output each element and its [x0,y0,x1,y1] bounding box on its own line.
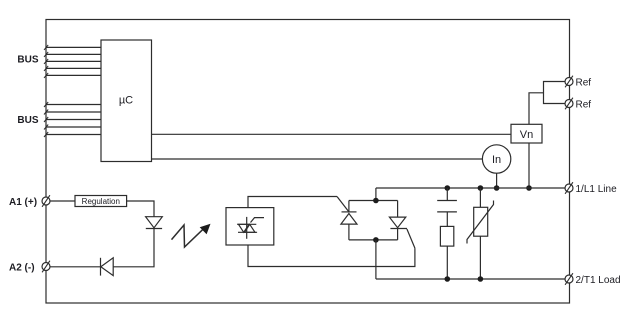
wire LED to diode [113,229,154,267]
terminal Ref 1 [565,76,591,89]
Ref bracket wires [544,82,566,104]
resistor R1 [440,226,453,246]
opto-triac U2 [226,208,274,245]
terminal A2 [9,261,50,274]
terminal A1 [9,195,50,208]
Regulation box [75,196,127,207]
wire line to cap [446,188,448,201]
optical arrow [172,224,211,247]
pair top rail [349,200,398,202]
svg-text:2/T1 Load: 2/T1 Load [576,275,621,286]
junction RC-load [445,276,451,282]
svg-text:Vn: Vn [520,129,533,141]
Vn box [511,124,542,143]
diode D1 [101,258,114,276]
svg-text:Ref: Ref [576,99,592,110]
bus wires group 2 [44,102,101,137]
wire In bottom [496,173,498,188]
junction RC-line [445,185,451,191]
thyristor Q2 (right, cathode down) [389,201,407,240]
svg-text:BUS: BUS [17,55,38,66]
pair bottom rail [349,239,398,241]
capacitor C1 [437,201,457,212]
boundary frame [46,20,570,304]
varistor RV1 [467,201,494,244]
svg-text:A1 (+): A1 (+) [9,197,37,208]
wire uC to Vn [152,133,512,135]
junction pair bottom [373,237,379,243]
bus wires group 1 [44,45,101,78]
junction In-line [494,185,500,191]
wire A1 to Regulation [50,200,75,202]
junction Vn-line [526,185,532,191]
load bus 2/T1 [376,278,566,280]
SCR1 gate lead [337,197,349,212]
junction pair top [373,198,379,204]
terminal Ref 2 [565,98,591,111]
wire opto top to SCR1 gate [248,197,337,208]
junction varistor-line [478,185,484,191]
svg-text:Ref: Ref [576,77,592,88]
svg-text:A2 (-): A2 (-) [9,262,35,273]
wire varistor to load bus [479,236,481,279]
wire uC to In [152,158,483,160]
svg-text:BUS: BUS [17,115,38,126]
wire resistor to load bus [446,246,448,279]
line bus 1/L1 [376,187,566,189]
wire Regulation to LED [127,201,154,217]
wire Vn bottom [528,143,530,188]
wire opto bottom to SCR2 gate [248,245,415,267]
thyristor Q1 (left, cathode up) [341,201,357,240]
wire line to varistor [479,188,481,207]
LED D2 [146,217,163,229]
terminal 2/T1 Load [565,273,621,286]
svg-text:In: In [492,154,501,166]
junction varistor-load [478,276,484,282]
In circle [482,145,510,173]
svg-text:Regulation: Regulation [82,197,120,206]
svg-text:1/L1 Line: 1/L1 Line [576,184,618,195]
wire Vn top [529,93,544,125]
terminal 1/L1 Line [565,182,617,195]
wire cap to resistor [446,212,448,227]
µC U1 [101,40,152,162]
svg-text:µC: µC [119,95,133,107]
SCR2 gate lead [407,229,415,248]
wire pair bottom to load bus [375,240,377,279]
wire diode to A2 [50,266,101,268]
wire line-bus corner to pair [375,188,377,201]
